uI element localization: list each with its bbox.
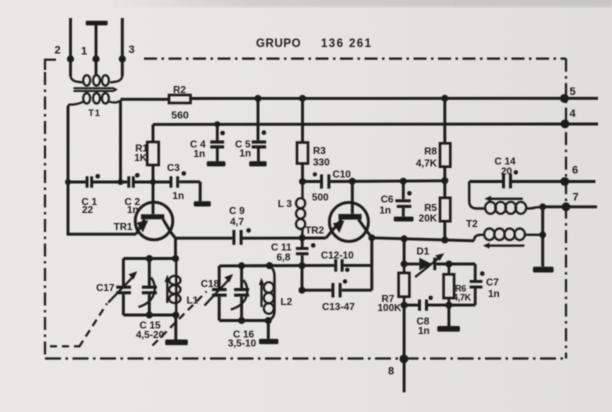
trimmer capacitor C15 [139,259,157,316]
node T2 lower right [539,231,546,238]
trimmer capacitor C16 [231,266,249,321]
node tank2/C16 top [238,262,245,269]
wire tank1 to ground [174,315,177,340]
ground (tank 2) [259,339,278,344]
capacitor C12 label [321,251,354,262]
wire D1 line [404,263,475,266]
resistor R1 label [135,144,148,155]
capacitor C1 label [82,197,98,208]
resistor R1 [147,142,159,165]
ground (tank 1) [165,340,188,346]
resistor R5 [440,198,450,221]
capacitor C8 value 1n [418,326,430,337]
terminal 5 label [569,86,575,98]
resistor R3 [297,143,308,164]
node R5 bottom [441,237,448,244]
svg-text:1n: 1n [194,149,206,160]
wire rail B to R1 [152,124,155,142]
svg-text:1n: 1n [418,326,430,337]
resistor R8 value 4,7K [416,159,438,170]
svg-text:C 9: C 9 [229,206,245,217]
tank 1 top rail [123,257,175,260]
resistor R3 label [313,146,326,157]
svg-text:136 261: 136 261 [321,38,372,50]
wire rail A (terminal 5 rail) [121,98,599,99]
trimmer capacitor C15 value 4,5-20 [136,330,165,341]
capacitor C9 value 4,7 [230,217,244,228]
node rail A / R8 branch [441,95,448,102]
terminal 7 dot [562,202,571,211]
capacitor C10 value 500 [312,193,329,204]
capacitor C6 label [381,195,394,206]
resistor R2 value 560 [171,110,189,122]
node drop to D1 [401,235,408,242]
wire terminal 8 [403,305,406,392]
gang line dashed diagonal to C18 [153,292,207,346]
node tank1/C15 bottom [146,312,153,319]
terminal 1 dot [92,55,99,62]
svg-text:C6: C6 [381,195,394,206]
svg-text:1n: 1n [127,205,139,216]
capacitor C7 value 1n [488,289,500,300]
capacitor C2 [127,173,139,188]
resistor R2 [169,95,191,103]
capacitor C14 label [495,157,517,168]
inductor L1 label [187,296,199,307]
module shield boundary (dash-dot) top-left corner [45,60,56,70]
tank 1 bottom rail [123,314,175,317]
ground (R6/C8) [437,326,460,332]
terminal 8 dot [400,355,409,364]
wire collector row TR1 to TR2 emitter (y=238) [176,237,327,240]
transistor TR1 [135,182,175,240]
svg-text:20: 20 [501,167,513,178]
svg-text:560: 560 [171,110,189,122]
ground (T2) [533,267,554,273]
capacitor C12 [334,259,349,272]
transformer T1 label [88,108,101,118]
tank 2 top rail / wire to C12 (y=265.7) [219,264,372,267]
svg-text:C17: C17 [96,283,115,294]
inductor L3 label [278,199,293,210]
terminal 8 label [388,366,394,378]
wire T2 right side vertical [541,207,544,267]
terminal 6 label [572,165,578,177]
transformer T1 [68,75,122,108]
svg-text:R8: R8 [424,147,437,158]
wire rail A to R8 [443,98,446,143]
node R8/R5/C10-line [441,177,448,184]
svg-text:6: 6 [572,165,578,177]
svg-text:4,7K: 4,7K [453,293,472,303]
wire C3 to ground [199,182,202,202]
node tank1/L1 top [172,255,179,262]
resistor R3 value 330 [313,158,330,169]
capacitor C8 label [417,317,430,328]
node R1/C2/C3/base [150,179,156,185]
svg-text:4,5-20: 4,5-20 [136,330,165,341]
capacitor C10 [313,172,331,188]
capacitor C3 [170,171,187,188]
svg-text:T1: T1 [88,108,101,118]
terminal 2 dot [67,55,74,62]
svg-text:TR1: TR1 [114,222,133,233]
svg-text:4,7: 4,7 [230,217,244,228]
terminal 2 wire [69,18,72,76]
wire base line y=182 [68,180,200,183]
capacitor C11 value 6,8 [277,252,291,263]
wire rail B (terminal 4 rail) [153,123,598,126]
capacitor C2 value 1n [127,205,139,216]
transistor TR2 label [305,226,324,237]
wire R5 bottom to collector row [443,221,446,240]
tank 2 bottom rail [219,319,268,322]
resistor R7 [399,264,410,305]
capacitor C3 label [167,163,180,174]
wire tank2 to ground [267,321,270,339]
ground (C3) [194,201,211,206]
terminal 2 label [54,45,60,57]
resistor R5 value 20K [419,214,438,225]
module shield boundary (dash-dot) bottom side [45,357,566,359]
capacitor C4 label [190,140,206,151]
variable capacitor C18 label [201,279,220,290]
capacitor C3 value 1n [172,191,184,202]
svg-text:500: 500 [312,193,329,204]
node TR2 base tee [349,178,356,185]
node C13 row left [299,287,306,294]
svg-text:L2: L2 [281,297,293,308]
node C1 left [65,179,71,185]
wire TR2 collector row to T2 (y=239) [372,238,474,241]
wire rail A to C5 [257,98,260,140]
node rail A / R3 branch [299,95,306,102]
wire TR1 collector drop to tank 1 [174,238,177,258]
wire C14 line [469,180,595,183]
capacitor C7 label [486,278,499,289]
wire TR1 emitter loop [68,182,136,234]
wire R8 to node [443,167,446,198]
svg-text:C7: C7 [486,278,499,289]
terminal 3 label [128,44,134,56]
node rail A / C5 branch [255,95,262,102]
terminal 1 wire [95,25,98,76]
capacitor C6 [394,181,414,222]
node L3/C11/TR2-emitter [299,234,306,241]
node T2 upper right / terminal 7 [539,203,546,210]
trimmer capacitor C15 label [139,320,161,331]
capacitor C5 label [235,140,251,151]
terminal 3 wire [121,18,124,76]
node TR2 collector [368,234,375,241]
wire C11 node down to C13 row [301,266,304,291]
terminal 5 dot [560,94,569,103]
module shield boundary (dash-dot) top side [144,57,566,59]
capacitor C9 [232,228,251,245]
transformer T2 label [466,219,478,230]
capacitor C7 [470,264,485,305]
svg-text:TR2: TR2 [305,226,324,237]
svg-text:1n: 1n [379,206,391,217]
resistor R8 label [424,147,437,158]
wire C13 row [302,238,372,290]
resistor R6 label [455,284,466,294]
capacitor C1 value 22 [82,205,94,216]
gang line dashed horizontal tail [50,345,80,347]
resistor R7 value 100K [378,303,403,314]
node R3/L3/C10 [299,178,306,185]
svg-text:7: 7 [572,192,578,204]
svg-text:R3: R3 [313,146,326,157]
transformer T2 [469,182,543,249]
svg-text:1n: 1n [239,149,251,160]
node C6 tee [400,178,407,185]
node tank2/C16 bottom [238,317,245,324]
capacitor C1 [86,174,100,188]
trimmer capacitor C16 value 3,5-10 [228,339,257,350]
resistor R6 [444,264,455,305]
gang line dashed diagonal to C17 [79,304,107,348]
svg-text:1: 1 [81,46,87,58]
svg-text:1n: 1n [172,191,184,202]
module title GRUPO 136 261 [256,38,372,50]
resistor R2 label [173,85,186,96]
svg-text:2: 2 [54,45,60,57]
node tank1/C15 top [146,255,153,262]
node tank2/C11 [299,262,306,269]
terminal 7 label [572,192,578,204]
inductor L2 label [281,297,293,308]
variable capacitor C17 label [96,283,115,294]
capacitor C2 label [125,197,141,208]
svg-text:8: 8 [388,366,394,378]
inductor L3 [296,182,305,238]
capacitor C13 [331,279,347,297]
svg-text:5: 5 [569,86,575,98]
node R6 bottom / C8 / ground [445,302,452,309]
svg-text:T2: T2 [466,219,478,230]
terminal 3 dot [119,55,126,62]
node C1/C2/T1 [118,179,124,185]
wire oscillator line y=181 (R3 node to R8/R5 node) [303,179,445,183]
node D1 anode / R7 [401,261,408,268]
node tank2/L2 top [266,262,273,269]
svg-text:4: 4 [569,108,576,120]
capacitor C14 value 20 [501,167,513,178]
capacitor C11 label [271,242,292,253]
capacitor C10 label [333,170,352,181]
svg-text:C10: C10 [333,170,352,181]
capacitor C6 value 1n [379,206,391,217]
svg-text:1n: 1n [488,289,500,300]
capacitor C14 [502,170,518,188]
node tank1/L1 bottom [172,312,179,319]
node rail B / C4 branch [214,121,220,127]
terminal 4 label [569,108,576,120]
capacitor C4 value 1n [194,149,206,160]
transistor TR2 [326,181,372,241]
wire C8 row [404,304,449,307]
diode D1 [415,253,444,277]
wire T1 secondary left to node A [67,106,70,182]
svg-text:330: 330 [313,158,330,169]
terminal 6 dot [560,177,569,186]
svg-text:C12-10: C12-10 [321,251,354,262]
svg-text:R5: R5 [424,203,437,214]
wire T1 secondary right down to C1/C2 node [119,100,122,182]
svg-text:6,8: 6,8 [277,252,291,263]
capacitor C5 [249,130,266,166]
transistor TR1 label [114,222,133,233]
svg-text:R2: R2 [173,85,186,96]
terminal 1 top bar (antenna) [86,21,108,26]
svg-text:100K: 100K [378,303,403,314]
node tank2/L2 bottom [265,317,272,324]
svg-text:L 3: L 3 [278,199,293,210]
svg-text:20K: 20K [419,214,438,225]
wire R3 to node [301,164,304,182]
svg-text:4,7K: 4,7K [416,159,438,170]
svg-text:C13-47: C13-47 [322,302,355,313]
module shield boundary (dash-dot) left side [44,72,46,359]
wire drop to D1/R7 node [403,239,406,264]
wire R6 bottom to ground [447,305,450,326]
svg-text:3,5-10: 3,5-10 [228,339,257,350]
wire R1 bottom to base node [152,165,155,182]
wire terminal 7 line [543,205,597,208]
svg-text:C3: C3 [167,163,180,174]
svg-text:3: 3 [128,44,134,56]
resistor R7 label [382,294,395,305]
variable capacitor C17 [108,259,137,316]
terminal 1 label [81,46,87,58]
resistor R8 [440,143,450,166]
diode D1 label [417,247,430,258]
resistor R6 value 4,7K [453,293,472,303]
resistor R1 value 1K [134,153,148,164]
capacitor C13 label [322,302,355,313]
node R6 top [445,261,452,268]
trimmer capacitor C16 label [233,329,255,340]
terminal 4 dot [561,120,570,129]
wire rail A to R3 [301,98,304,142]
svg-text:D1: D1 [417,247,430,258]
capacitor C4 [207,124,226,166]
svg-text:GRUPO: GRUPO [256,38,301,50]
capacitor C8 [418,296,433,311]
module shield boundary (dash-dot) right side [565,59,567,359]
resistor R5 label [424,203,437,214]
svg-text:1K: 1K [134,153,148,164]
capacitor C11 [296,238,316,266]
svg-text:C18: C18 [201,279,220,290]
inductor L1 [165,259,181,316]
capacitor C5 value 1n [239,149,251,160]
inductor L2 [259,266,275,321]
svg-text:22: 22 [82,205,94,216]
wire C7 bottom to R6 bottom [449,304,475,307]
variable capacitor C18 [205,266,234,321]
capacitor C9 label [229,206,245,217]
node R7 bottom / C8 / terminal 8 [401,302,408,309]
